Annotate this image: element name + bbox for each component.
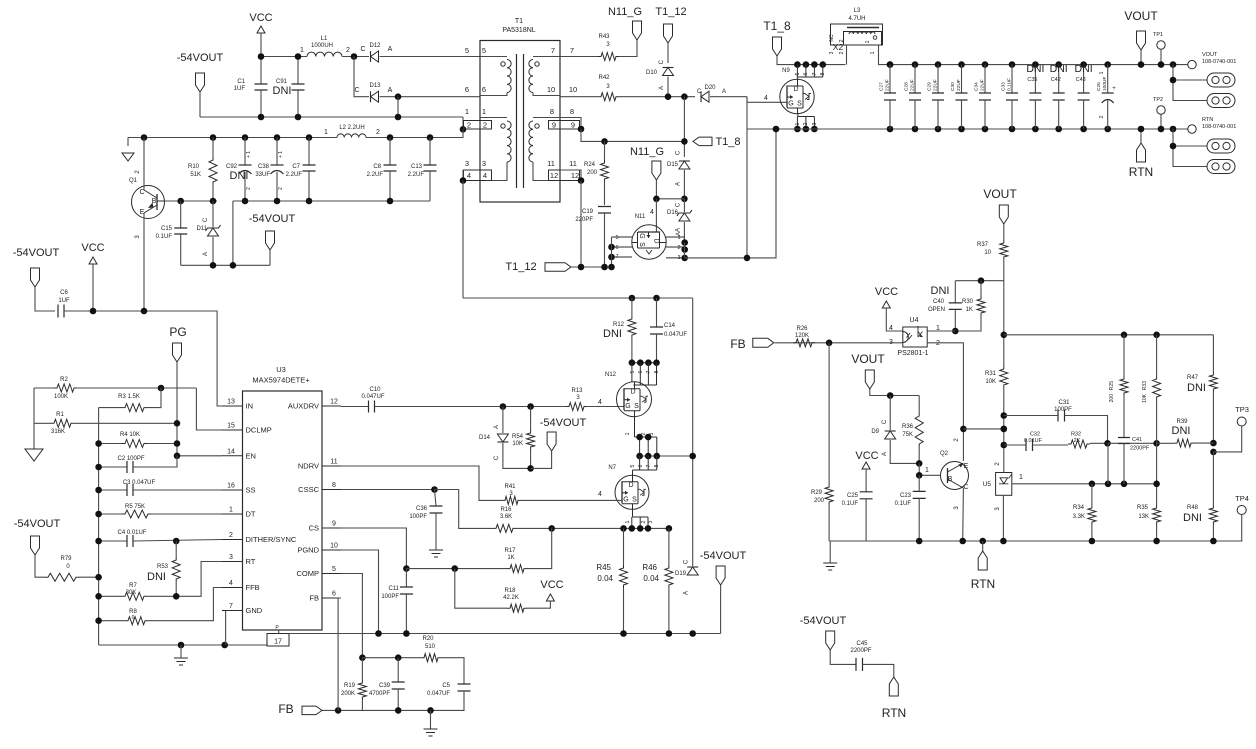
U3 pin 6 FB [322, 597, 341, 599]
U3 pin 16 SS [222, 489, 243, 491]
wire pin9 down and right to T1_8 row [581, 129, 684, 141]
node R1/PG junction [174, 420, 181, 427]
svg-text:2: 2 [1099, 115, 1105, 118]
wire D20 node down to N11 row [746, 97, 748, 258]
wire L3 pin1 down to VOUT rail [879, 45, 891, 65]
svg-text:D: D [630, 389, 635, 396]
wire N7 source row [612, 527, 669, 529]
svg-text:33UF: 33UF [255, 172, 270, 178]
svg-text:2: 2 [839, 39, 845, 42]
svg-text:3: 3 [812, 122, 818, 125]
svg-text:1: 1 [1099, 71, 1105, 74]
svg-text:R36: R36 [902, 424, 914, 430]
svg-text:0.047UF: 0.047UF [664, 332, 687, 338]
node C41 join [1121, 481, 1128, 488]
svg-text:1: 1 [324, 129, 328, 136]
svg-text:1000UH: 1000UH [311, 43, 333, 49]
svg-text:RTN: RTN [1202, 117, 1213, 123]
svg-text:4700PF: 4700PF [369, 691, 390, 697]
node Q2 base [916, 472, 923, 479]
node C14 top [653, 295, 660, 302]
svg-text:4: 4 [598, 491, 602, 498]
svg-text:2: 2 [936, 340, 940, 347]
svg-text:TP1: TP1 [1153, 32, 1163, 38]
svg-text:R48: R48 [1187, 505, 1199, 511]
U3 pin 15 DCLMP [222, 429, 243, 431]
wire N12 drain row [632, 362, 657, 364]
svg-text:DNI: DNI [230, 170, 249, 182]
pad pair RTN 1 [1207, 139, 1235, 153]
svg-text:C: C [494, 455, 500, 460]
svg-text:1: 1 [482, 107, 486, 116]
svg-text:R79: R79 [60, 556, 72, 562]
svg-text:C15: C15 [161, 226, 173, 232]
svg-text:R33: R33 [1142, 381, 1148, 390]
svg-text:4: 4 [764, 95, 768, 102]
node C31 tap [1001, 412, 1008, 419]
svg-text:PGND: PGND [297, 546, 319, 555]
wire R36 node to Q2 base [919, 463, 941, 475]
node C92 top [242, 134, 249, 141]
node D15 string top [681, 93, 688, 100]
svg-text:7: 7 [615, 254, 618, 260]
node D13 join y117 [395, 114, 402, 121]
svg-text:0.04: 0.04 [597, 574, 613, 583]
wire N7 source stubs [633, 509, 649, 517]
svg-text:R24: R24 [584, 162, 596, 168]
svg-text:C: C [203, 217, 209, 222]
svg-text:N7: N7 [608, 465, 616, 471]
node C7 top [306, 134, 313, 141]
svg-text:13: 13 [227, 399, 235, 406]
svg-text:VOUT: VOUT [1202, 52, 1218, 58]
svg-text:U3: U3 [276, 365, 286, 374]
wire Q1 emitter down to C6 row [143, 213, 145, 311]
node T1 pin2 tie [460, 126, 467, 133]
svg-text:R2: R2 [60, 377, 68, 383]
svg-text:C31: C31 [1058, 400, 1070, 406]
wire VOUT spare pads [1173, 65, 1207, 101]
svg-text:N11_G: N11_G [630, 146, 664, 158]
svg-text:9: 9 [552, 121, 556, 130]
node C5/gnd join [427, 707, 434, 714]
pad pair VOUT 2 [1207, 94, 1235, 108]
node PGND join [375, 630, 382, 637]
svg-text:-54VOUT: -54VOUT [540, 417, 587, 429]
svg-text:C3 0.047UF: C3 0.047UF [123, 480, 156, 486]
capacitor C27 22UF [887, 61, 894, 68]
wire R43 to N11_G flag [619, 40, 637, 57]
U3 pin 5 COMP [322, 573, 341, 575]
svg-text:C1: C1 [237, 79, 245, 85]
svg-text:2: 2 [376, 129, 380, 136]
svg-text:TP3: TP3 [1235, 405, 1249, 414]
svg-text:0.04: 0.04 [643, 574, 659, 583]
svg-text:DT: DT [246, 510, 256, 519]
svg-text:100K: 100K [54, 394, 68, 400]
capacitor C33 0.1UF [1009, 61, 1016, 68]
svg-text:C40: C40 [933, 299, 945, 305]
svg-text:DCLMP: DCLMP [246, 426, 272, 435]
svg-text:6: 6 [638, 464, 644, 467]
node R24 top [601, 138, 608, 145]
U3 pin 10 PGND [322, 549, 341, 551]
svg-text:1: 1 [625, 432, 631, 435]
svg-text:2: 2 [839, 51, 845, 54]
node R54 top [527, 403, 534, 410]
svg-text:C39: C39 [379, 683, 391, 689]
svg-text:R46: R46 [642, 563, 657, 572]
node T1 pin9 [578, 126, 585, 133]
node R34 top [1089, 481, 1096, 488]
svg-text:C26: C26 [1096, 82, 1102, 91]
svg-text:C: C [360, 46, 365, 53]
svg-text:1: 1 [625, 520, 631, 523]
svg-text:OPEN: OPEN [928, 307, 945, 313]
node D10 bottom [665, 93, 672, 100]
svg-text:C38: C38 [258, 164, 270, 170]
svg-text:22UF: 22UF [933, 79, 939, 91]
svg-text:R20: R20 [422, 636, 434, 642]
svg-text:8: 8 [654, 464, 660, 467]
wire VOUT top rail y64.6 [890, 64, 1192, 66]
node N11 pin2 [681, 246, 688, 253]
node C36 top [431, 486, 438, 493]
svg-text:AUXDRV: AUXDRV [288, 402, 319, 411]
svg-text:C42: C42 [1051, 77, 1061, 83]
svg-text:-54VOUT: -54VOUT [700, 550, 747, 562]
svg-text:T1: T1 [515, 18, 523, 25]
svg-text:-54VOUT: -54VOUT [800, 615, 847, 627]
U3 pin 9 CS [322, 527, 341, 529]
wire COMP riser [341, 574, 362, 658]
node C1 top [258, 53, 265, 60]
node R54 bottom [527, 465, 534, 472]
svg-text:T1_8: T1_8 [715, 136, 740, 148]
node C8 top [387, 134, 394, 141]
svg-text:C11: C11 [388, 586, 399, 592]
svg-text:2: 2 [677, 245, 680, 251]
node R31 bottom [1001, 426, 1008, 433]
svg-text:TP2: TP2 [1153, 97, 1163, 103]
svg-text:2.2UF: 2.2UF [286, 172, 303, 178]
wire N11 left bus down to T1_12 row [611, 237, 613, 267]
svg-text:VOUT: VOUT [851, 352, 885, 366]
wire T1 pin11/12 tie [560, 170, 581, 181]
wire PG vertical [177, 362, 222, 456]
node TP3 join [1210, 449, 1217, 456]
svg-text:4: 4 [229, 580, 233, 587]
svg-text:EN: EN [246, 451, 256, 460]
svg-text:-54VOUT: -54VOUT [14, 518, 61, 530]
wire top row y56.5 [261, 56, 307, 58]
svg-text:4: 4 [889, 325, 893, 332]
T1 pin box 9 (right upper) [549, 121, 580, 130]
wire R13 to N12 gate [587, 406, 624, 408]
svg-text:9: 9 [332, 521, 336, 528]
svg-text:G: G [788, 101, 793, 108]
wire cap-bottom row segment [233, 200, 430, 202]
svg-text:T1_12: T1_12 [505, 261, 536, 273]
svg-text:D19: D19 [675, 571, 687, 577]
svg-text:G: G [625, 403, 630, 410]
wire opto pin2 to Q2 emitter [927, 343, 963, 461]
svg-text:4.7UH: 4.7UH [848, 16, 865, 22]
pad pair VOUT 1 [1207, 73, 1235, 87]
svg-text:5: 5 [615, 235, 618, 241]
node N11 gate [653, 196, 660, 203]
wire N12 source row [640, 455, 693, 457]
svg-text:1: 1 [870, 51, 876, 54]
svg-text:100UF: 100UF [1102, 77, 1108, 91]
svg-text:6: 6 [615, 245, 618, 251]
wire stub down to D13 row [354, 57, 369, 97]
node riser bottom [230, 262, 237, 269]
svg-text:E: E [964, 463, 969, 470]
node R39 join [1210, 440, 1217, 447]
node N11 left bus [608, 244, 615, 251]
svg-text:0.1UF: 0.1UF [895, 501, 912, 507]
node R2/R3 junction [158, 385, 165, 392]
wire analog ground rail [99, 639, 267, 645]
svg-text:C: C [684, 559, 690, 564]
svg-text:100PF: 100PF [409, 514, 427, 520]
node N11 riser on rail [773, 126, 780, 133]
node Q2 collector rail [959, 538, 966, 545]
node R25 top [1121, 332, 1128, 339]
wire R33/R35 riser [1156, 443, 1158, 505]
svg-text:7: 7 [646, 464, 652, 467]
svg-text:D: D [628, 482, 633, 489]
svg-text:1: 1 [936, 325, 940, 332]
svg-text:2: 2 [467, 121, 471, 130]
svg-text:CSSC: CSSC [298, 485, 319, 494]
svg-text:3: 3 [229, 554, 233, 561]
U3 pin 11 NDRV [322, 465, 341, 467]
svg-text:TP4: TP4 [1235, 494, 1249, 503]
mosfet N9 [780, 79, 814, 113]
svg-text:7: 7 [646, 370, 652, 373]
T1 pin box 2 (left upper) [464, 121, 492, 130]
svg-text:Q1: Q1 [129, 178, 138, 184]
svg-text:RTN: RTN [882, 706, 906, 720]
wire T1 pin4 down to clamp row [462, 181, 464, 299]
wire emitter tap to R31 node [963, 428, 1003, 430]
svg-text:DNI: DNI [273, 85, 292, 97]
svg-text:A: A [722, 89, 726, 95]
svg-text:MAX5974DETE+: MAX5974DETE+ [252, 376, 310, 385]
svg-text:VCC: VCC [855, 450, 878, 462]
node C1 bottom [258, 114, 265, 121]
svg-text:3.6K: 3.6K [500, 514, 512, 520]
pad pair RTN 2 [1207, 160, 1235, 174]
svg-text:C: C [139, 189, 144, 196]
wire Q2 collector to RTN rail [962, 488, 965, 541]
node C31/R32 join [1104, 440, 1111, 447]
svg-text:DNI: DNI [931, 285, 950, 297]
ground symbol (U3) [180, 645, 182, 658]
svg-text:SS: SS [246, 486, 256, 495]
svg-text:T1_12: T1_12 [655, 6, 686, 18]
svg-text:3: 3 [648, 520, 654, 523]
svg-text:22UF: 22UF [885, 79, 891, 91]
svg-text:R1: R1 [56, 412, 64, 418]
svg-text:4: 4 [467, 171, 471, 180]
svg-text:6: 6 [465, 85, 469, 94]
node EN junction [174, 453, 181, 460]
node R30 top [978, 277, 985, 284]
svg-text:C: C [676, 150, 682, 155]
svg-text:DNI: DNI [1172, 425, 1191, 437]
svg-text:R37: R37 [977, 242, 989, 248]
svg-text:DNI: DNI [1075, 63, 1093, 75]
node N11 source row / D20 riser [744, 255, 751, 262]
svg-text:R10: R10 [188, 164, 200, 170]
svg-text:G: G [623, 496, 628, 503]
svg-text:PG: PG [169, 325, 186, 339]
svg-text:R35: R35 [1137, 505, 1149, 511]
wire -54VOUT return row y117 to T1 pin1 [200, 116, 463, 118]
svg-text:S: S [638, 242, 645, 247]
svg-text:C: C [659, 59, 665, 64]
svg-text:R32: R32 [1071, 432, 1081, 438]
T1 winding secondary upper [533, 56, 560, 58]
svg-text:C33: C33 [1001, 82, 1007, 91]
wire D12 to T1 pin5 [380, 56, 481, 58]
svg-text:R29: R29 [811, 490, 823, 496]
svg-text:17: 17 [274, 639, 282, 646]
capacitor C29 22UF [935, 61, 942, 68]
svg-text:VCC: VCC [875, 286, 898, 298]
svg-text:8: 8 [570, 107, 574, 116]
node D19 rail [689, 630, 696, 637]
wire FB pin riser [338, 598, 341, 710]
svg-text:R54: R54 [512, 434, 524, 440]
node Q1 emitter join [141, 308, 148, 315]
svg-text:42.2K: 42.2K [503, 595, 519, 601]
svg-text:10: 10 [984, 250, 991, 256]
svg-text:C34: C34 [974, 82, 980, 91]
node T1 pin12 [578, 177, 585, 184]
svg-text:16: 16 [227, 483, 235, 490]
svg-text:C27: C27 [879, 82, 885, 91]
svg-text:8: 8 [550, 107, 554, 116]
svg-text:22UF: 22UF [956, 79, 962, 91]
node divider row join [1001, 332, 1008, 339]
ground symbol (RTN rail) [829, 541, 831, 563]
wire NDRV to R41 [341, 466, 502, 500]
svg-text:8: 8 [820, 72, 826, 75]
wire R20 to C5 [441, 658, 464, 684]
svg-text:11: 11 [569, 159, 577, 168]
wire riser caps-bottom to -54VOUT row [232, 201, 234, 265]
svg-text:A: A [203, 252, 209, 256]
wire D13 anode down to C1/C91 bottom row [397, 97, 399, 117]
node N11_G row [681, 196, 688, 203]
svg-text:DNI: DNI [603, 328, 622, 340]
svg-text:A: A [388, 87, 393, 94]
node C39 bottom [395, 707, 402, 714]
svg-text:C36: C36 [416, 506, 428, 512]
svg-text:C: C [354, 87, 359, 94]
svg-text:12: 12 [550, 171, 558, 180]
node R53 bottom [173, 593, 180, 600]
svg-text:N11: N11 [635, 214, 646, 220]
wire N12 source stubs [635, 417, 657, 437]
svg-text:PS2801-1: PS2801-1 [897, 350, 928, 357]
svg-text:N9: N9 [782, 68, 790, 74]
svg-text:15: 15 [227, 423, 235, 430]
wire comp riser x1108 [1107, 443, 1109, 484]
svg-text:DNI: DNI [147, 571, 166, 583]
node C11 bottom [403, 630, 410, 637]
svg-text:316K: 316K [51, 429, 65, 435]
wire Q1 collector [143, 138, 145, 191]
svg-text:5: 5 [795, 72, 801, 75]
svg-text:-54VOUT: -54VOUT [177, 52, 224, 64]
wire T1_12 row [571, 266, 612, 268]
svg-text:22UF: 22UF [910, 79, 916, 91]
svg-text:+ 1: + 1 [278, 151, 284, 158]
node R17 riser [548, 525, 555, 532]
svg-text:Q2: Q2 [940, 451, 949, 457]
svg-text:C23: C23 [900, 493, 912, 499]
svg-text:7: 7 [229, 603, 233, 610]
svg-text:510: 510 [425, 644, 436, 650]
svg-text:S: S [634, 403, 639, 410]
svg-text:FB: FB [730, 337, 745, 351]
node pad tap [1170, 143, 1177, 150]
svg-text:13K: 13K [1138, 514, 1149, 520]
svg-text:C7: C7 [292, 164, 300, 170]
node C15 top [177, 198, 184, 205]
wire RTN spare pads [1173, 129, 1207, 167]
node T1 pin4 [460, 177, 467, 184]
svg-text:COMP: COMP [297, 569, 320, 578]
svg-text:2: 2 [641, 432, 647, 435]
svg-text:2: 2 [246, 187, 252, 190]
wire R42 to D20 [619, 96, 695, 98]
wire left mini-bus [98, 408, 100, 645]
svg-text:4: 4 [650, 209, 654, 216]
svg-text:9: 9 [571, 121, 575, 130]
svg-text:FB: FB [278, 702, 293, 716]
svg-text:10: 10 [330, 543, 338, 550]
wire R31 node string [1003, 335, 1005, 366]
svg-text:1UF: 1UF [58, 298, 70, 304]
divider top row y334.8 [1004, 334, 1214, 336]
wire D20 to N9 gate [710, 96, 747, 98]
wire U5 anode to rail [1002, 495, 1004, 541]
wire CSSC to C36 [341, 489, 435, 491]
svg-text:6: 6 [332, 591, 336, 598]
U3 pin 17 pad [267, 634, 289, 647]
svg-text:4: 4 [598, 399, 602, 406]
svg-text:200: 200 [587, 170, 598, 176]
svg-text:C13: C13 [411, 164, 423, 170]
svg-text:R30: R30 [962, 299, 974, 305]
node connector tap bottom [1170, 126, 1177, 133]
node gnd symbol tap [178, 642, 185, 649]
wire N7 drain stubs [640, 456, 657, 470]
capacitor C34 22UF [982, 61, 989, 68]
svg-text:C45: C45 [856, 641, 868, 647]
svg-text:R53: R53 [157, 564, 169, 570]
connector J RTN 108-0740-001 [1188, 125, 1196, 133]
svg-text:2200PF: 2200PF [1130, 446, 1150, 452]
svg-text:1: 1 [229, 507, 233, 514]
node C32 tap [1001, 442, 1008, 449]
